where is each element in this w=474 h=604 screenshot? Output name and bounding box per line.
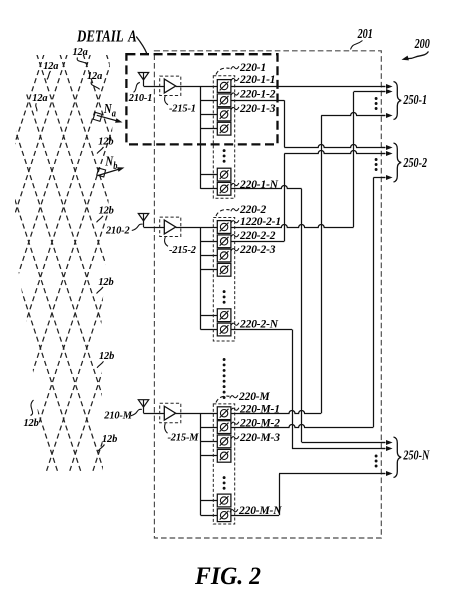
svg-text:-215-1: -215-1 — [169, 104, 196, 115]
wire 220-1-2 output via lane x=284.3 to 250-2 arrow1 — [231, 100, 393, 150]
label 12b (bottom-left) — [24, 400, 39, 429]
label 12a (upper-left) — [43, 61, 58, 80]
svg-text:220-2-N: 220-2-N — [239, 319, 279, 331]
svg-text:250-N: 250-N — [403, 448, 430, 463]
phase shifter 220-2-2 box — [217, 235, 231, 248]
label 12b (row3) — [97, 277, 114, 294]
label 220-M-2 — [231, 418, 280, 430]
label 220-M-1 — [231, 404, 280, 416]
wire bus to phase shifter row y=255.5 — [201, 255, 218, 257]
dashed boundary box 201 — [154, 51, 381, 538]
label 12b (row1) — [97, 137, 113, 154]
svg-text:220-1: 220-1 — [239, 62, 266, 74]
svg-text:210-2: 210-2 — [105, 226, 130, 237]
svg-text:220-1-2: 220-1-2 — [239, 88, 276, 100]
svg-text:200: 200 — [414, 37, 430, 52]
label 215-2 with leader — [165, 237, 196, 256]
label 210-2 with leader — [105, 224, 143, 236]
svg-text:-215-2: -215-2 — [169, 245, 196, 256]
wire bus to phase shifter row y=455.8 — [201, 455, 218, 457]
label DETAIL A with leader — [76, 28, 147, 54]
wire bus to phase shifter row y=114.5 — [201, 114, 218, 116]
wire 220-M-2 output via lane x=373.4 to 250-2 arrow3 — [231, 175, 393, 428]
svg-text:12a: 12a — [32, 93, 47, 104]
wire bus to phase shifter row y=174.6 — [201, 174, 218, 176]
label 220-2-3 — [231, 244, 276, 256]
svg-text:220-M-1: 220-M-1 — [239, 404, 280, 416]
svg-text:DETAIL A: DETAIL A — [76, 28, 137, 46]
svg-text:12b: 12b — [102, 434, 117, 445]
label 220-2-N — [231, 319, 279, 331]
bus vertical for chain M — [200, 413, 202, 515]
amplifier 215-M — [160, 403, 181, 422]
phase shifter 220-2-3 box — [217, 249, 231, 262]
svg-text:220-1-3: 220-1-3 — [239, 103, 276, 115]
label 220-M-N — [230, 505, 282, 517]
wire bus to phase shifter row y=329.5 — [201, 329, 218, 331]
wire bus to phase shifter row y=315.2 — [201, 315, 218, 317]
svg-text:220-2: 220-2 — [239, 204, 266, 216]
wire 220-M-N output via lane x=279 to 250-N arrow3 — [231, 471, 393, 516]
wire bus to phase shifter row y=128.7 — [201, 128, 218, 130]
bus vertical for chain 2 — [200, 227, 202, 330]
svg-text:210-1: 210-1 — [128, 93, 153, 104]
wire bus to phase shifter row y=515.2 — [201, 515, 218, 517]
svg-text:FIG. 2: FIG. 2 — [194, 562, 261, 590]
phase shifter 220-2-N-1 box — [217, 309, 231, 322]
phase shifter 220-1-4 box — [217, 122, 231, 135]
antenna 210-1 — [138, 73, 148, 87]
dots inside group 220-2 — [223, 290, 226, 304]
phase shifter group 220-1 dashed enclosure — [213, 76, 234, 198]
svg-text:12b: 12b — [24, 418, 39, 429]
phase shifter group 220-M dashed enclosure — [213, 404, 234, 524]
wire amplifier 215-1 to phase shifters — [176, 86, 218, 88]
phase shifter 220-1-3 box — [217, 108, 231, 121]
antenna 210-2 — [138, 214, 148, 228]
phase shifter 220-M-N-1 box — [217, 494, 231, 507]
dots column between chains — [223, 358, 226, 399]
wire bus to phase shifter row y=241.3 — [201, 241, 218, 243]
label Na with angle square and arrow — [93, 101, 122, 123]
wire 220-1-1 output to 250-1 arrow1 — [231, 84, 393, 89]
dots inside group 220-M — [223, 476, 226, 490]
wire bus to phase shifter row y=269.8 — [201, 269, 218, 271]
svg-text:220-2-3: 220-2-3 — [239, 244, 276, 256]
antenna 210-M — [138, 400, 148, 414]
label 220-M with leader — [216, 391, 270, 403]
label 12b (row4) — [97, 351, 114, 368]
svg-text:220-M-N: 220-M-N — [238, 505, 282, 517]
label 215-1 with leader — [165, 96, 196, 115]
phase shifter 220-M-N box — [217, 509, 231, 522]
svg-text:220-M-3: 220-M-3 — [239, 432, 280, 444]
dots inside group 220-1 — [223, 149, 226, 162]
label 210-M with leader — [103, 409, 142, 421]
amplifier 215-2 — [160, 217, 181, 236]
label 215-M with leader — [164, 423, 199, 443]
label 12b (bottom-right) — [98, 434, 117, 451]
label 12a (right) — [87, 71, 102, 89]
svg-text:250-2: 250-2 — [403, 156, 428, 171]
label 220-1-2 — [231, 88, 276, 100]
svg-text:220-M: 220-M — [238, 391, 270, 403]
label 220-1-3 — [231, 103, 276, 115]
wire bus to phase shifter row y=500.5 — [201, 500, 218, 502]
label 210-1 with leader — [128, 82, 153, 104]
bold dashed DETAIL A box — [126, 54, 277, 144]
label 220-1 with leader — [216, 62, 266, 75]
wire bus to phase shifter row y=100.3 — [201, 100, 218, 102]
label 200 with arrow — [402, 37, 430, 61]
wire antenna 210-M to amplifier — [144, 413, 165, 415]
svg-text:220-1-N: 220-1-N — [239, 179, 279, 191]
svg-text:210-M: 210-M — [103, 411, 132, 422]
svg-text:220-M-2: 220-M-2 — [239, 418, 280, 430]
label 220-1-1 — [231, 74, 276, 86]
phase shifter 220-1-1 box — [217, 80, 231, 93]
phase shifter 220-2-N box — [217, 323, 231, 336]
amplifier 215-1 — [160, 76, 181, 95]
phase shifter 220-2-4 box — [217, 263, 231, 276]
bus vertical for chain 1 — [200, 86, 202, 189]
svg-text:250-1: 250-1 — [403, 93, 428, 108]
antenna array lattice 12a/12b — [0, 54, 290, 472]
brace and label 250-2 — [375, 143, 428, 182]
label Nb with angle square and arrow — [97, 153, 125, 176]
wire 220-2-N output via lane x=292 to 250-N arrow2 — [231, 330, 393, 452]
svg-text:-215-M: -215-M — [168, 433, 200, 444]
wire 220-2-1 output via lane x=353.6 to 250-1 arrow2 — [231, 89, 393, 228]
svg-text:12a: 12a — [87, 71, 102, 82]
svg-text:1220-2-1: 1220-2-1 — [240, 216, 281, 228]
label 220-1-N — [231, 179, 279, 191]
wire bus to phase shifter row y=188.8 — [201, 188, 218, 190]
label 220-M-3 — [231, 432, 280, 444]
wire antenna 210-2 to amplifier — [144, 227, 165, 229]
label 220-2 with leader — [216, 204, 266, 216]
wire amplifier 215-2 to phase shifters — [176, 227, 218, 229]
wire bus to phase shifter row y=441.4 — [201, 441, 218, 443]
label 201 with leader — [351, 27, 373, 50]
wire 220-M-1 output via lane x=321.2 to 250-1 arrow3 — [231, 113, 393, 414]
label 1220-2-1 — [231, 216, 281, 228]
svg-text:12a: 12a — [73, 47, 88, 58]
phase shifter 220-M-2 box — [217, 421, 231, 434]
svg-text:12b: 12b — [99, 206, 114, 217]
svg-text:12b: 12b — [98, 137, 113, 148]
wire 220-1-N output via lane x=301.6 to 250-N arrow1 — [231, 186, 393, 446]
svg-text:220-1-1: 220-1-1 — [239, 74, 275, 86]
phase shifter 220-M-3 box — [217, 435, 231, 448]
svg-text:201: 201 — [357, 27, 373, 42]
phase shifter 220-M-1 box — [217, 407, 231, 420]
phase shifter 220-M-4 box — [217, 449, 231, 462]
label 220-2-2 — [231, 230, 276, 242]
phase shifter 220-1-N-1 box — [217, 168, 231, 181]
brace and label 250-N — [375, 437, 430, 478]
svg-text:12b: 12b — [98, 277, 113, 288]
phase shifter 220-1-N box — [217, 182, 231, 195]
phase shifter group 220-2 dashed enclosure — [213, 218, 234, 342]
svg-text:12b: 12b — [99, 351, 114, 362]
brace and label 250-1 — [375, 82, 427, 120]
label 12a (lower-left) — [32, 93, 47, 112]
wire amplifier 215-M to phase shifters — [176, 413, 218, 415]
phase shifter 220-1-2 box — [217, 94, 231, 107]
wire bus to phase shifter row y=427.1 — [201, 427, 218, 429]
phase shifter 220-2-1 box — [217, 221, 231, 234]
wire 220-2-2 output via lane x=284.3 to 250-2 arrow2 — [231, 151, 393, 242]
wire antenna 210-1 to amplifier — [144, 86, 165, 88]
svg-text:220-2-2: 220-2-2 — [239, 230, 276, 242]
svg-text:12a: 12a — [43, 61, 58, 72]
label 12b (row2) — [97, 206, 114, 223]
label 12a (top) — [73, 47, 88, 64]
